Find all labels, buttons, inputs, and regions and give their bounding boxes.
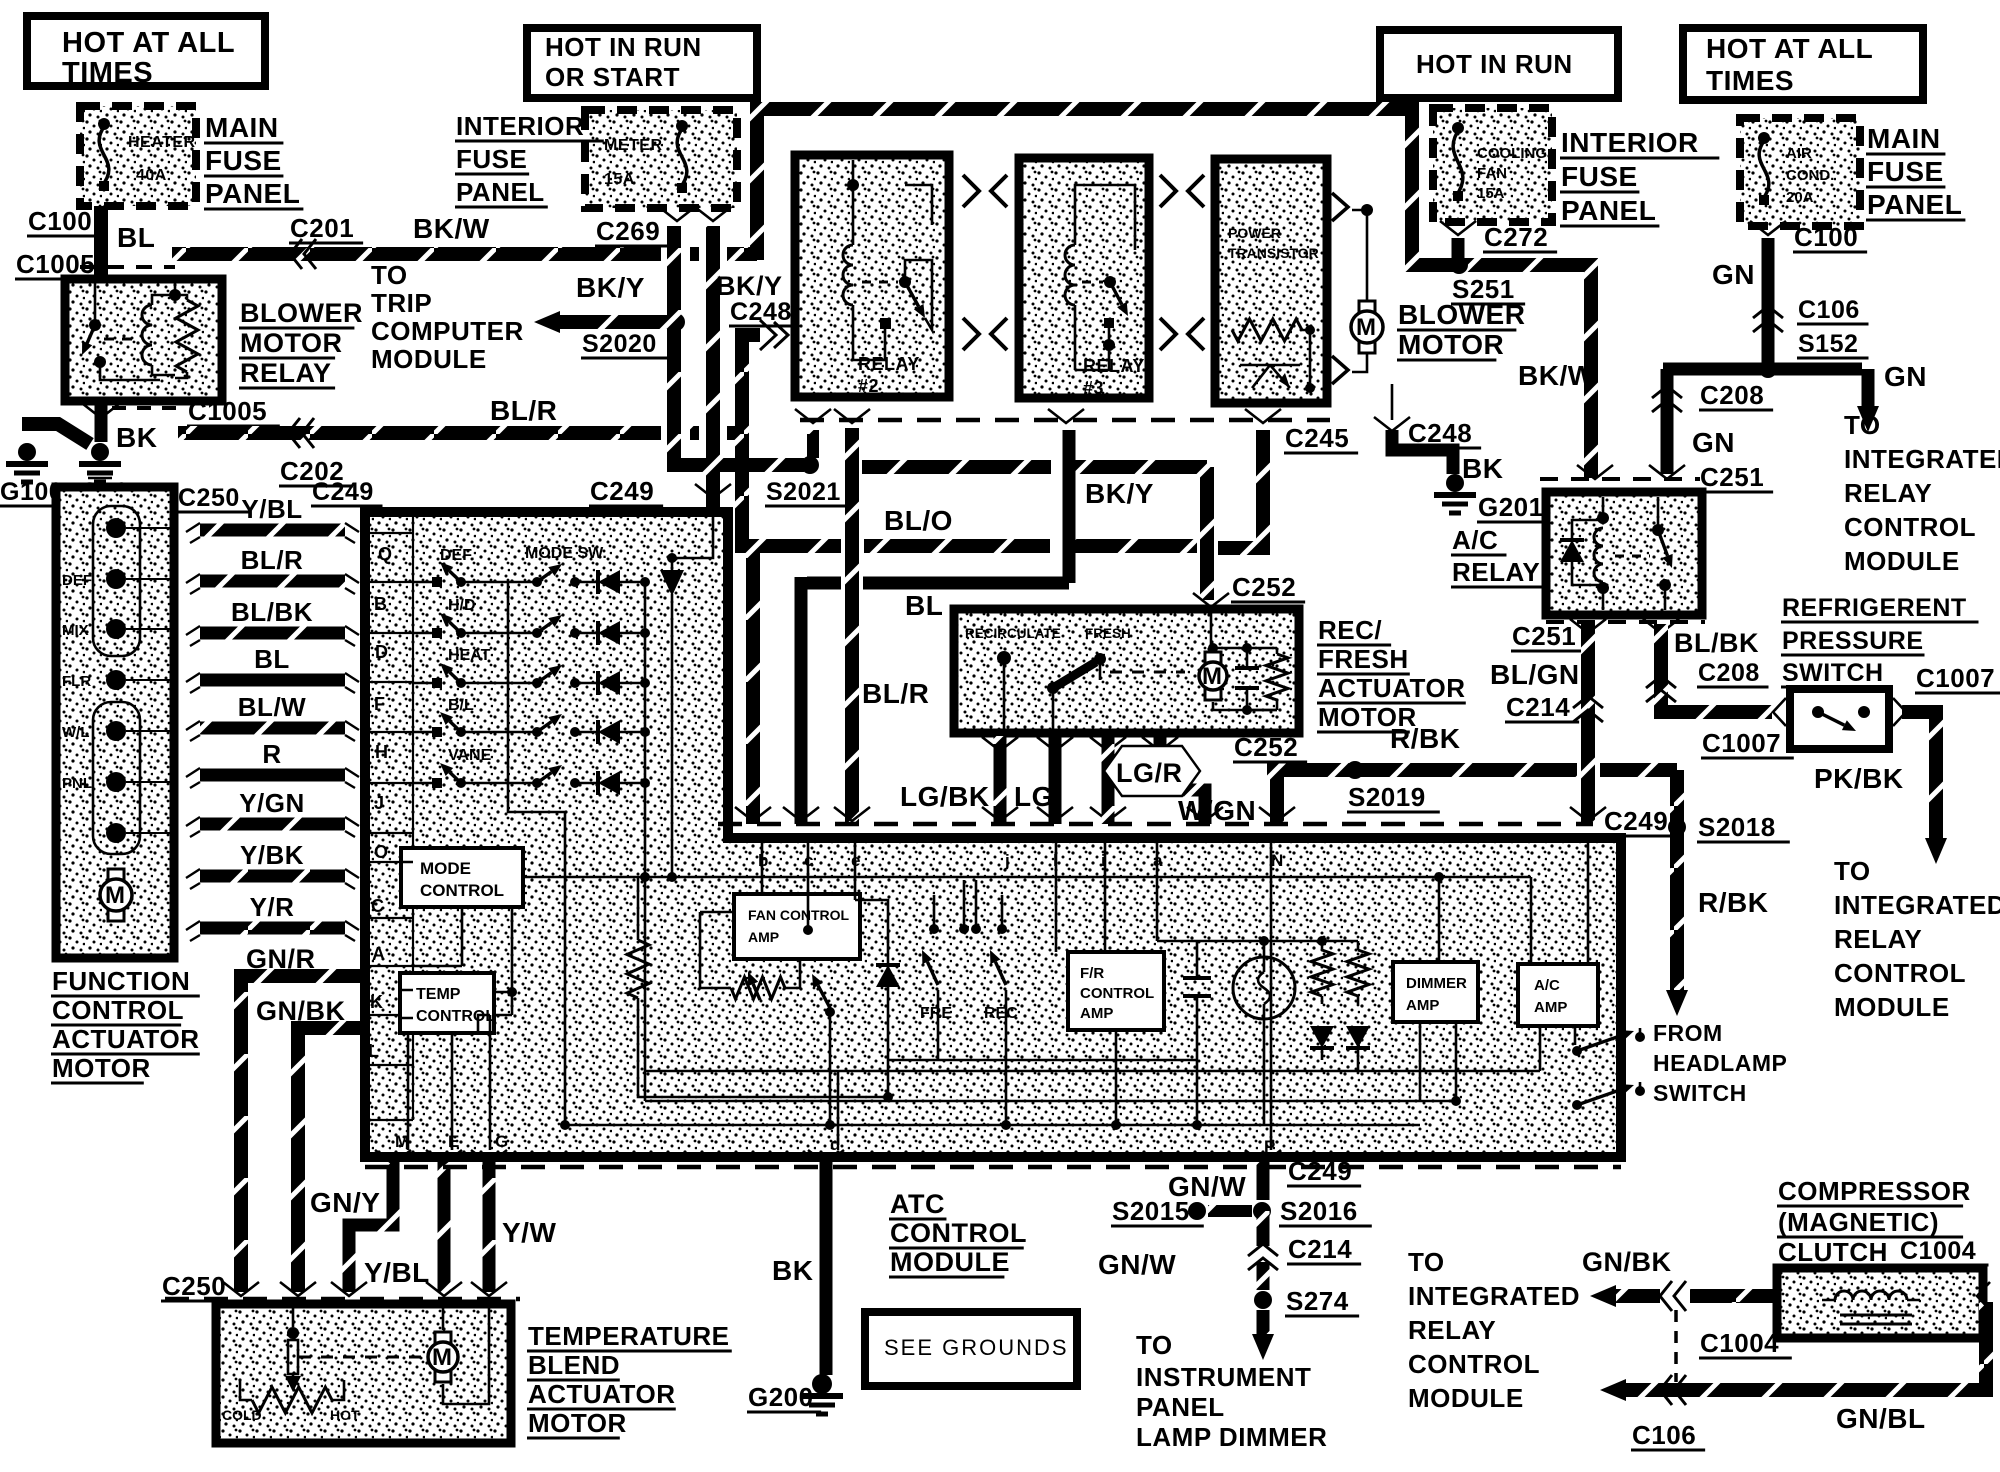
wire BK to G200	[820, 1162, 833, 1375]
svg-text:BL/O: BL/O	[884, 505, 953, 536]
dimmer amp wires	[1434, 872, 1444, 882]
connector C201 chevron	[290, 239, 302, 269]
svg-text:AIR: AIR	[1786, 145, 1812, 162]
function pin FLR y680	[106, 670, 126, 690]
svg-text:AMP: AMP	[748, 929, 779, 945]
svg-text:C1007: C1007	[1916, 663, 1995, 693]
chevron pair relay2-relay3 top	[963, 175, 979, 207]
svg-text:#3: #3	[1083, 378, 1104, 398]
svg-text:INSTRUMENT: INSTRUMENT	[1136, 1362, 1311, 1392]
svg-text:MOTOR: MOTOR	[1398, 329, 1504, 360]
connector C208 chevron (upper)	[1652, 386, 1682, 398]
connector row below module	[365, 1165, 1621, 1170]
svg-text:Y/W: Y/W	[502, 1217, 556, 1248]
svg-text:TEMP: TEMP	[416, 986, 461, 1003]
chevron pt to blower motor top	[1332, 193, 1348, 221]
fuse box MAIN FUSE PANEL (AIR COND 20A)	[1740, 118, 1860, 226]
chevron pair relay3-pt top	[1160, 175, 1176, 207]
svg-text:TO: TO	[1408, 1247, 1445, 1277]
fuse HEATER 40A symbol	[99, 124, 109, 186]
wire GN/R	[241, 976, 360, 1292]
svg-text:MAIN: MAIN	[205, 112, 279, 143]
a/c relay diode	[1560, 540, 1584, 562]
wire Y/BL from pin E	[438, 1162, 451, 1292]
box A/C AMP	[1518, 964, 1598, 1026]
svg-text:TRIP: TRIP	[371, 288, 432, 318]
wire arrow to trip computer	[556, 315, 674, 329]
svg-text:Y/R: Y/R	[250, 892, 295, 922]
svg-text:O: O	[374, 842, 388, 862]
connector C208 chevron (lower)	[1646, 676, 1676, 688]
svg-text:M: M	[1202, 663, 1222, 690]
svg-text:SWITCH: SWITCH	[1782, 659, 1884, 687]
svg-text:R: R	[262, 739, 281, 769]
header box HOT AT ALL TIMES (left)	[27, 16, 265, 86]
temp control wires	[400, 990, 512, 1018]
connector C249 chevron at module (BK/Y entry)	[695, 484, 731, 498]
wire BL/W ladder bar	[200, 722, 345, 735]
svg-text:C249: C249	[590, 476, 654, 506]
svg-text:PANEL: PANEL	[456, 177, 545, 207]
svg-text:COND.: COND.	[1786, 167, 1834, 184]
box FAN CONTROL AMP	[734, 894, 860, 959]
svg-text:HOT IN RUN: HOT IN RUN	[1416, 49, 1573, 79]
svg-text:MOTOR: MOTOR	[528, 1408, 627, 1438]
svg-text:FAN: FAN	[1477, 165, 1507, 182]
wire GN arrow to IRCM	[1862, 369, 1875, 410]
svg-text:C106: C106	[1632, 1420, 1696, 1450]
clutch coil	[1835, 1291, 1907, 1300]
mode switch row 2	[413, 632, 432, 635]
splice S2018 dot	[1668, 818, 1686, 836]
svg-text:ATC: ATC	[890, 1189, 945, 1219]
svg-text:MODULE: MODULE	[1834, 992, 1950, 1022]
svg-text:C1004: C1004	[1700, 1328, 1779, 1358]
svg-text:D: D	[375, 642, 388, 662]
svg-text:S2018: S2018	[1698, 812, 1776, 842]
svg-text:METER: METER	[604, 137, 663, 154]
svg-text:C100: C100	[1794, 222, 1858, 252]
svg-text:B/L: B/L	[448, 697, 474, 714]
svg-text:C: C	[371, 896, 384, 916]
mode control wires	[401, 862, 645, 877]
svg-text:TO: TO	[1834, 856, 1871, 886]
wire GN/W C249 stub	[1257, 1162, 1270, 1200]
svg-text:MOTOR: MOTOR	[1318, 702, 1417, 732]
svg-text:C245: C245	[1285, 423, 1349, 453]
a/c relay switch	[1652, 524, 1664, 536]
svg-text:CONTROL: CONTROL	[416, 1008, 495, 1025]
box DIMMER AMP	[1393, 962, 1478, 1022]
module resistor left	[637, 877, 640, 940]
svg-text:BLOWER: BLOWER	[240, 298, 363, 328]
blower relay resistor	[176, 300, 198, 372]
svg-text:BL/W: BL/W	[238, 692, 306, 722]
wire GN/W to C214	[1257, 1211, 1270, 1246]
svg-text:INTERIOR: INTERIOR	[1561, 127, 1699, 158]
svg-text:CLUTCH: CLUTCH	[1778, 1237, 1888, 1267]
svg-text:BK/Y: BK/Y	[1085, 478, 1154, 509]
function pin PNL y782	[106, 772, 126, 792]
svg-text:BL/BK: BL/BK	[1674, 628, 1759, 658]
fan amp pot	[700, 838, 762, 988]
ground G100	[18, 443, 36, 461]
splice S2021 wire	[690, 458, 804, 472]
svg-text:ACTUATOR: ACTUATOR	[52, 1024, 199, 1054]
svg-text:M: M	[1356, 314, 1376, 341]
svg-text:FUSE: FUSE	[456, 144, 527, 174]
svg-text:AMP: AMP	[1534, 999, 1567, 1016]
wire BL/GN vertical	[1581, 624, 1595, 824]
svg-text:DEF.: DEF.	[440, 547, 475, 564]
relay box A/C RELAY	[1546, 492, 1702, 615]
module right switches	[1572, 1046, 1582, 1056]
svg-text:RELAY: RELAY	[1408, 1315, 1496, 1345]
blower relay switch	[89, 319, 101, 331]
function connector outline 2	[93, 702, 140, 854]
svg-text:RELAY: RELAY	[240, 358, 332, 388]
svg-text:R/BK: R/BK	[1698, 887, 1768, 918]
svg-text:A/C: A/C	[1452, 525, 1498, 555]
svg-text:J: J	[374, 793, 384, 813]
svg-text:C106: C106	[1798, 296, 1860, 324]
ground G101	[91, 443, 109, 461]
svg-text:C214: C214	[1288, 1234, 1352, 1264]
svg-text:C249: C249	[312, 478, 374, 506]
module lamp	[1233, 957, 1295, 1019]
wire GN/BK	[298, 1028, 360, 1292]
svg-text:C251: C251	[1700, 462, 1764, 492]
svg-text:W/L: W/L	[62, 724, 90, 741]
svg-text:INTEGRATED: INTEGRATED	[1834, 890, 2000, 920]
svg-text:Y/BL: Y/BL	[241, 494, 302, 524]
svg-text:FUSE: FUSE	[1561, 161, 1638, 192]
svg-text:B: B	[374, 594, 387, 614]
svg-text:S2015: S2015	[1112, 1196, 1190, 1226]
svg-text:C214: C214	[1506, 692, 1570, 722]
svg-text:C1004: C1004	[1900, 1237, 1976, 1265]
svg-text:C208: C208	[1700, 380, 1764, 410]
svg-text:BL/R: BL/R	[241, 545, 304, 575]
connector C214 chevrons	[1573, 696, 1603, 708]
svg-text:(MAGNETIC): (MAGNETIC)	[1778, 1207, 1939, 1237]
svg-text:BK/Y: BK/Y	[716, 271, 783, 301]
relay3 switch	[1104, 276, 1116, 288]
svg-text:C250: C250	[178, 484, 240, 512]
wire BL stub from fuse to relay	[94, 206, 108, 280]
chevron at clutch right	[1977, 1282, 1990, 1310]
svg-text:#2: #2	[858, 376, 879, 396]
wire BL/R ladder bar	[200, 575, 345, 588]
svg-text:REFRIGERENT: REFRIGERENT	[1782, 594, 1967, 622]
connector C106 chevrons	[1753, 306, 1783, 318]
svg-text:TIMES: TIMES	[62, 57, 153, 89]
svg-text:S2016: S2016	[1280, 1196, 1358, 1226]
connector C249 dashed row	[718, 822, 1593, 827]
chevron pair relay3-pt bottom	[1160, 318, 1176, 350]
svg-text:INTEGRATED: INTEGRATED	[1844, 444, 2000, 474]
wire LG/R	[1102, 736, 1115, 824]
pressure switch contacts	[1812, 706, 1824, 718]
svg-text:HEAT: HEAT	[448, 647, 491, 664]
svg-text:N: N	[1271, 851, 1283, 870]
svg-text:CONTROL: CONTROL	[420, 881, 504, 900]
svg-text:DIMMER: DIMMER	[1406, 975, 1467, 992]
a/c amp wires	[1531, 838, 1588, 1071]
wire relay2 left pin to S2021	[807, 430, 819, 458]
connector C1004 chevrons	[1660, 1281, 1672, 1311]
wire BK bent to grounds	[22, 424, 90, 444]
svg-text:SWITCH: SWITCH	[1653, 1080, 1747, 1106]
rec/fresh capacitor	[1246, 648, 1249, 710]
mode switch row 5	[413, 782, 432, 785]
connector C248 (blower motor)	[1374, 417, 1410, 431]
splice S274 dot	[1254, 1291, 1272, 1309]
connector C245 dashed row	[800, 418, 1330, 423]
svg-text:HOT: HOT	[330, 1407, 360, 1423]
svg-text:G201: G201	[1478, 492, 1544, 522]
svg-text:F/R: F/R	[1080, 965, 1104, 982]
wire BK stub below relay	[95, 404, 108, 442]
rec/fresh motor	[1205, 652, 1221, 664]
svg-text:W/GN: W/GN	[1178, 795, 1256, 826]
mode switch row 1	[413, 581, 432, 584]
chevron pair relay2-relay3 bottom	[963, 318, 979, 350]
wire C272 stub	[1452, 238, 1465, 262]
svg-text:PNL: PNL	[62, 775, 92, 792]
wire power transistor pin jog	[1218, 430, 1263, 548]
wire GN/W arrow	[1257, 1310, 1270, 1338]
svg-text:CONTROL: CONTROL	[1844, 512, 1976, 542]
svg-text:MODULE: MODULE	[371, 344, 487, 374]
wire BK/Y vertical 1 from C269	[674, 226, 804, 465]
svg-text:40A: 40A	[136, 167, 167, 184]
svg-text:C252: C252	[1232, 572, 1296, 602]
module diode mid	[855, 838, 888, 1097]
svg-text:CONTROL: CONTROL	[1408, 1349, 1540, 1379]
connector C106 chevrons (bottom)	[1660, 1375, 1672, 1405]
ground G201 (blower)	[1446, 474, 1464, 492]
svg-text:C1007: C1007	[1702, 728, 1781, 758]
svg-text:FROM: FROM	[1653, 1020, 1723, 1046]
mode switch row 4	[413, 731, 432, 734]
relay box POWER TRANSISTOR	[1215, 159, 1327, 403]
svg-text:PRESSURE: PRESSURE	[1782, 627, 1924, 655]
wire Y/GN ladder bar	[200, 818, 345, 831]
box MODE CONTROL	[401, 848, 523, 907]
svg-text:RECIRCULATE: RECIRCULATE	[965, 626, 1061, 641]
wire BL/BK	[1661, 624, 1772, 712]
chevron pt to blower motor bottom	[1332, 356, 1348, 384]
svg-text:Y/GN: Y/GN	[239, 788, 305, 818]
connector C250 dashed row	[165, 1297, 520, 1302]
svg-text:FLR: FLR	[62, 673, 91, 690]
svg-text:REC/: REC/	[1318, 615, 1382, 645]
svg-text:GN: GN	[1884, 361, 1927, 392]
svg-text:FRESH: FRESH	[1085, 626, 1131, 641]
function pin DEF y579	[106, 569, 126, 589]
svg-text:M: M	[432, 1344, 452, 1371]
mode switch pole line	[508, 582, 565, 1125]
wire Y/BL ladder bar	[200, 524, 345, 537]
function control actuator motor box	[56, 487, 174, 958]
wire LG	[1049, 736, 1062, 824]
wire BL ladder bar	[200, 674, 345, 687]
module pin column lines	[365, 512, 413, 1120]
mode switch row 3	[413, 682, 432, 685]
svg-text:H/D: H/D	[448, 597, 476, 614]
wire GN from fuse	[1762, 238, 1775, 369]
wire R/BK horizontal	[1267, 770, 1677, 992]
splice S152 junction	[1759, 360, 1777, 378]
svg-text:REC: REC	[984, 1005, 1018, 1022]
svg-text:BK/W: BK/W	[413, 213, 490, 244]
svg-text:CONTROL: CONTROL	[890, 1218, 1027, 1248]
fuse METER 15A symbol	[677, 126, 687, 188]
svg-text:AMP: AMP	[1080, 1005, 1113, 1022]
connector row dashes below relay	[112, 406, 180, 410]
relay box RELAY #2	[795, 155, 949, 397]
wire BK/Y from C248 down and right	[742, 328, 760, 824]
fuse box INTERIOR FUSE PANEL (COOLING FAN 15A)	[1433, 108, 1552, 222]
svg-text:BL/GN: BL/GN	[1490, 659, 1580, 690]
svg-text:INTEGRATED: INTEGRATED	[1408, 1281, 1580, 1311]
svg-text:PANEL: PANEL	[1561, 195, 1656, 226]
svg-text:POWER: POWER	[1228, 225, 1281, 241]
connector C248 chevron to relay2	[760, 320, 776, 350]
svg-text:Y/BL: Y/BL	[364, 1257, 430, 1288]
svg-text:MODULE: MODULE	[1408, 1383, 1524, 1413]
diode bus vertical	[644, 582, 647, 877]
wire BK/Y vertical 2 from C269	[706, 226, 720, 508]
box F/R CONTROL AMP	[1068, 952, 1164, 1030]
svg-text:RELAY: RELAY	[1844, 478, 1932, 508]
svg-text:BL: BL	[117, 222, 155, 253]
svg-text:S2019: S2019	[1348, 782, 1426, 812]
module arrow down	[660, 570, 684, 596]
svg-text:FUSE: FUSE	[1867, 156, 1944, 187]
svg-text:BL/BK: BL/BK	[231, 597, 313, 627]
header box HOT IN RUN OR START	[527, 28, 757, 98]
svg-text:C269: C269	[596, 216, 660, 246]
svg-text:HOT AT ALL: HOT AT ALL	[62, 27, 235, 59]
connector C214 chevrons (bottom)	[1248, 1244, 1278, 1256]
svg-text:15A: 15A	[604, 171, 635, 188]
svg-text:BK/Y: BK/Y	[576, 272, 645, 303]
svg-text:F: F	[374, 694, 385, 714]
splice S2020 dot	[667, 313, 685, 331]
svg-text:MODE SW.: MODE SW.	[525, 545, 607, 562]
connector C202 chevron	[288, 418, 300, 448]
svg-text:COMPUTER: COMPUTER	[371, 316, 524, 346]
svg-text:HOT AT ALL: HOT AT ALL	[1706, 33, 1873, 64]
temp blend motor	[435, 1332, 451, 1344]
splice S251 dot	[1450, 256, 1468, 274]
svg-text:j: j	[1004, 851, 1010, 870]
svg-text:HEADLAMP: HEADLAMP	[1653, 1050, 1787, 1076]
svg-text:FRESH: FRESH	[1318, 644, 1409, 674]
wire GN/BL	[1622, 1302, 1986, 1390]
a/c relay coil	[1594, 528, 1603, 582]
svg-text:GN/BL: GN/BL	[1836, 1403, 1926, 1434]
svg-text:PK/BK: PK/BK	[1814, 763, 1904, 794]
temp blend wiper	[292, 1304, 295, 1327]
svg-text:COMPRESSOR: COMPRESSOR	[1778, 1176, 1971, 1206]
fuse box INTERIOR FUSE PANEL (METER 15A) dashed	[585, 110, 737, 208]
svg-text:S274: S274	[1286, 1286, 1349, 1316]
svg-text:GN/Y: GN/Y	[310, 1187, 380, 1218]
module BK/Y entry line	[672, 516, 713, 558]
svg-text:FAN CONTROL: FAN CONTROL	[748, 907, 850, 923]
module resistor pair	[1321, 941, 1324, 950]
svg-text:OR START: OR START	[545, 62, 680, 92]
wire Y/W from pin G	[483, 1162, 496, 1292]
connector C106 dashed line	[1674, 1310, 1678, 1382]
svg-text:GN/BK: GN/BK	[256, 996, 346, 1026]
svg-text:CONTROL: CONTROL	[1080, 985, 1154, 1002]
svg-text:COLD: COLD	[222, 1407, 262, 1423]
connector row C251 above relay	[1540, 477, 1700, 481]
label LG/R capsule	[1104, 746, 1200, 796]
function pin dot y528	[106, 518, 126, 538]
module lines FRE bus	[888, 1060, 1196, 1125]
svg-text:P: P	[1264, 1137, 1275, 1156]
svg-text:FRE: FRE	[920, 1005, 952, 1022]
svg-text:C250: C250	[162, 1271, 226, 1301]
relay2 coil	[843, 245, 853, 305]
wire BK/W from C201	[172, 109, 1591, 478]
relay box blower motor relay	[65, 279, 222, 401]
box TEMP CONTROL	[400, 973, 494, 1033]
relay box RELAY #3	[1019, 158, 1149, 398]
svg-text:TO: TO	[1136, 1330, 1173, 1360]
svg-text:C252: C252	[1234, 732, 1298, 762]
svg-text:S2021: S2021	[766, 478, 841, 506]
svg-text:L: L	[368, 1041, 379, 1061]
svg-text:C201: C201	[290, 213, 354, 243]
svg-text:MODE: MODE	[420, 859, 471, 878]
svg-text:H: H	[375, 742, 388, 762]
svg-text:MODULE: MODULE	[1844, 546, 1960, 576]
svg-text:MODULE: MODULE	[890, 1247, 1010, 1277]
svg-text:MIX: MIX	[62, 622, 89, 639]
svg-text:RELAY: RELAY	[1083, 356, 1145, 376]
rec/fresh lever	[997, 651, 1011, 665]
connector chevron at switch right	[1893, 698, 1906, 726]
svg-text:HOT IN RUN: HOT IN RUN	[545, 32, 702, 62]
power transistor symbol	[1240, 365, 1300, 388]
svg-text:BK: BK	[116, 422, 157, 453]
svg-text:C249: C249	[1604, 806, 1668, 836]
svg-text:GN: GN	[1692, 427, 1735, 458]
connector row dashes above relay	[80, 265, 175, 269]
switch box refrigerant pressure switch	[1790, 689, 1889, 749]
function motor M	[108, 869, 124, 881]
svg-text:GN/W: GN/W	[1098, 1249, 1176, 1280]
svg-text:G: G	[495, 1132, 508, 1151]
function pin dot y833	[106, 823, 126, 843]
wire W/GN	[1160, 736, 1205, 824]
svg-text:TRANSISTOR: TRANSISTOR	[1228, 245, 1319, 261]
svg-text:Q: Q	[378, 544, 392, 564]
fuse COOLING FAN symbol	[1453, 128, 1463, 196]
temp blend resistor	[252, 1387, 332, 1413]
wire BL/R riser relay2 to module	[845, 428, 859, 824]
svg-text:GN/R: GN/R	[246, 944, 316, 974]
svg-text:G200: G200	[748, 1382, 814, 1412]
svg-text:S152: S152	[1798, 330, 1858, 358]
fuse box MAIN FUSE PANEL (HEATER 40A) dashed	[80, 106, 196, 206]
